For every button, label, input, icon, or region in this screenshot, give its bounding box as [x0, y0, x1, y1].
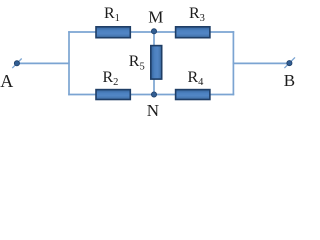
- wire left bus (vertical): [68, 31, 70, 95]
- svg-text:R5: R5: [129, 53, 145, 72]
- svg-text:R2: R2: [103, 69, 119, 88]
- terminal B: [284, 57, 295, 68]
- wire from terminal A to left bus: [19, 62, 70, 64]
- svg-text:A: A: [0, 71, 13, 91]
- node M junction dot: [151, 29, 156, 34]
- svg-text:M: M: [148, 7, 163, 26]
- resistor R2: [96, 90, 130, 100]
- svg-text:R3: R3: [189, 5, 205, 24]
- resistor R3: [176, 27, 210, 38]
- wire bottom branch: [68, 94, 234, 96]
- node N junction dot: [151, 92, 156, 97]
- svg-text:R4: R4: [188, 69, 205, 88]
- resistor R4: [176, 90, 210, 100]
- svg-text:B: B: [284, 71, 295, 90]
- wire top branch: [68, 31, 234, 33]
- wire right bus (vertical): [232, 31, 234, 95]
- resistor R1: [96, 27, 130, 38]
- terminal A: [12, 59, 21, 69]
- svg-text:R1: R1: [104, 5, 120, 24]
- wire middle stub M to N through R5: [153, 31, 155, 95]
- resistor R5: [151, 46, 162, 80]
- svg-text:N: N: [147, 101, 159, 120]
- wire from right bus to terminal B: [233, 62, 289, 64]
